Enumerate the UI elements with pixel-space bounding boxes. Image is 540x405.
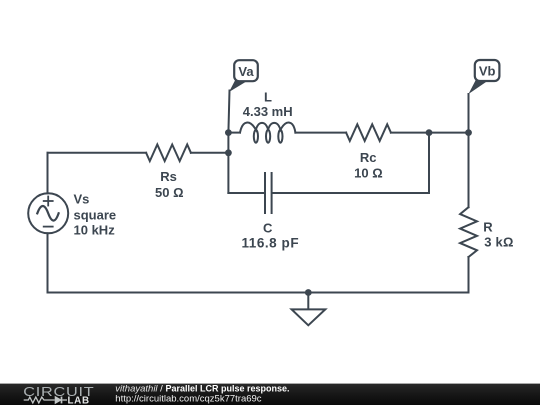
logo diode symbol	[55, 397, 67, 404]
svg-text:Rc: Rc	[360, 150, 377, 165]
wire inductor to Rc	[295, 132, 346, 134]
logo resistor symbol	[24, 397, 55, 403]
svg-text:R: R	[483, 219, 493, 234]
junction node b	[465, 129, 472, 136]
wire cap branch right	[273, 192, 429, 194]
svg-text:3 kΩ: 3 kΩ	[484, 235, 513, 250]
resistor R	[460, 207, 477, 257]
inductor L	[240, 123, 295, 133]
svg-text:Vb: Vb	[479, 64, 496, 79]
source Vs circle	[28, 193, 68, 233]
wire Va drop	[228, 91, 229, 194]
wire cap branch left	[228, 192, 264, 194]
svg-text:C: C	[263, 220, 273, 235]
resistor Rs	[146, 145, 191, 162]
flag Vb	[469, 60, 500, 94]
svg-text:Rs: Rs	[160, 169, 177, 184]
wire Rc to right node	[391, 132, 469, 134]
svg-text:10 kHz: 10 kHz	[74, 223, 116, 238]
svg-text:LAB: LAB	[68, 396, 90, 405]
svg-text:116.8 pF: 116.8 pF	[241, 235, 299, 250]
junction cap return	[426, 129, 433, 136]
wire Rs to node	[191, 152, 229, 154]
wire cap return vertical	[428, 133, 430, 193]
flag Va	[229, 60, 258, 92]
ground stub	[307, 293, 309, 309]
junction node a (L top)	[225, 129, 232, 136]
wire top horizontal left	[48, 152, 147, 154]
svg-text:Va: Va	[238, 64, 254, 79]
wire bottom horizontal	[48, 292, 469, 294]
svg-text:Vs: Vs	[74, 192, 90, 207]
svg-text:50 Ω: 50 Ω	[155, 185, 184, 200]
svg-text:http://circuitlab.com/cqz5k77t: http://circuitlab.com/cqz5k77tra69c	[115, 393, 262, 404]
svg-text:4.33 mH: 4.33 mH	[243, 104, 293, 119]
junction node Rs out	[225, 149, 232, 156]
wire top-left vertical	[47, 153, 49, 194]
junction ground	[305, 289, 312, 296]
svg-text:square: square	[74, 207, 117, 222]
wire source bottom	[47, 233, 49, 292]
capacitor C	[264, 173, 266, 213]
wire node to inductor	[228, 132, 240, 134]
wire R to bottom	[468, 257, 470, 293]
resistor Rc	[346, 124, 391, 141]
wire Vb drop	[468, 94, 470, 207]
svg-text:L: L	[264, 90, 272, 105]
svg-text:10 Ω: 10 Ω	[354, 166, 383, 181]
source plus	[44, 197, 53, 206]
source minus	[44, 226, 53, 228]
ground	[292, 309, 326, 325]
source sine	[37, 206, 58, 221]
footer bar	[0, 384, 540, 405]
